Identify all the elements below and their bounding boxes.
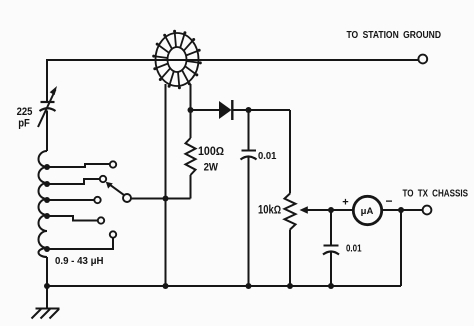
svg-text:μA: μA <box>361 206 374 217</box>
svg-text:100Ω: 100Ω <box>198 146 224 158</box>
svg-text:pF: pF <box>18 117 30 129</box>
svg-text:+: + <box>342 197 348 209</box>
svg-text:−: − <box>385 194 392 208</box>
svg-text:0.9 - 43 μH: 0.9 - 43 μH <box>55 255 104 267</box>
svg-text:225: 225 <box>17 106 33 118</box>
svg-text:0.01: 0.01 <box>346 243 362 254</box>
svg-text:TO TX CHASSIS: TO TX CHASSIS <box>403 187 469 199</box>
svg-text:10kΩ: 10kΩ <box>258 205 281 217</box>
svg-text:0.01: 0.01 <box>258 150 277 162</box>
svg-text:TO STATION GROUND: TO STATION GROUND <box>347 29 442 41</box>
svg-text:2W: 2W <box>204 162 219 174</box>
